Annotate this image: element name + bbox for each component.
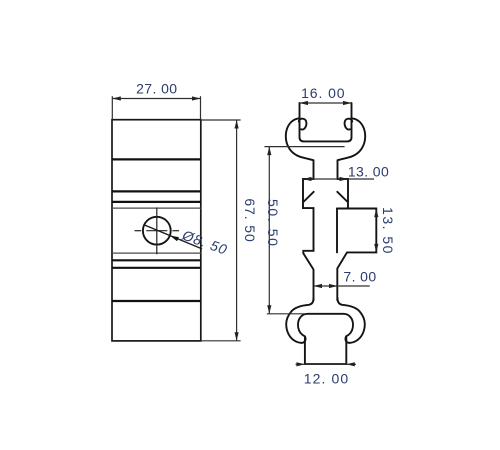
svg-text:13. 00: 13. 00	[348, 164, 389, 180]
svg-text:12. 00: 12. 00	[304, 371, 350, 387]
svg-text:7. 00: 7. 00	[343, 269, 376, 285]
svg-text:16. 00: 16. 00	[301, 85, 345, 101]
svg-text:13. 50: 13. 50	[380, 207, 396, 255]
svg-text:67. 50: 67. 50	[242, 198, 258, 242]
svg-text:27. 00: 27. 00	[136, 81, 177, 97]
svg-text:50. 50: 50. 50	[265, 199, 281, 248]
